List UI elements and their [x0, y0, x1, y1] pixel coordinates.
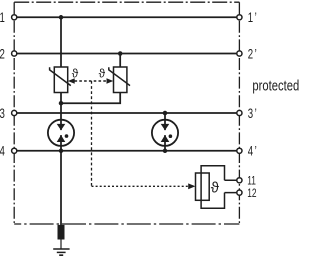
GDT F1 gas dot: [65, 134, 69, 138]
svg-text:ϑ: ϑ: [72, 67, 79, 81]
thermal disconnector actuator box: [196, 173, 210, 200]
frame right: [238, 2, 240, 224]
GDT F1 top electrode arrow: [57, 124, 66, 130]
frame left: [13, 2, 15, 224]
varistor R2 diagonal with tick: [109, 67, 130, 85]
svg-text:4: 4: [0, 144, 5, 159]
wire varistor R2 top (line2 down to box): [119, 54, 121, 68]
svg-text:ϑ: ϑ: [211, 180, 220, 197]
arrowhead left toward R1: [68, 78, 75, 84]
frame bottom: [14, 223, 239, 225]
junction dot line3/F2: [163, 111, 168, 116]
arrowhead right toward R2: [107, 78, 114, 84]
varistor R1 box: [54, 67, 67, 93]
wire main vertical lower (GDT F1 bottom electrode to ground block): [60, 135, 62, 239]
GDT F2 gas dot: [169, 134, 173, 138]
varistor R1 diagonal with tick: [50, 67, 71, 85]
wire line 3: [14, 112, 239, 114]
dotted signal line horizontal: [92, 185, 189, 187]
junction dot line1/main vertical: [59, 15, 64, 20]
wire line 1: [14, 16, 239, 18]
svg-text:protected: protected: [252, 77, 299, 94]
arrowhead into disconnector: [188, 183, 195, 189]
terminal 2': [237, 51, 242, 56]
varistor R2 box: [114, 67, 127, 93]
ground block feedthrough: [58, 225, 65, 240]
svg-text:1’: 1’: [248, 11, 259, 26]
svg-text:2’: 2’: [248, 47, 259, 62]
gas discharge tube F2 circle: [152, 120, 178, 146]
svg-text:4’: 4’: [248, 144, 259, 159]
wire line 4: [14, 150, 239, 152]
wire varistor R2 bottom to node A: [61, 93, 120, 104]
wire main vertical upper (line1 to GDT F1 top electrode): [60, 17, 62, 130]
GDT F1 bottom electrode arrow: [57, 135, 66, 142]
gas discharge tube F1 circle: [48, 120, 74, 146]
frame top (dash-dot boundary): [14, 1, 239, 3]
terminal 11: [237, 178, 242, 183]
wire GDT F2 (line3 to line4): [164, 113, 166, 151]
remote signalling contact outer box: [201, 166, 237, 209]
svg-text:2: 2: [0, 47, 5, 62]
svg-text:3: 3: [0, 106, 5, 121]
terminal 1': [237, 15, 242, 20]
terminal 1: [12, 15, 17, 20]
junction node A (varistor bottoms): [59, 101, 64, 106]
svg-text:11: 11: [247, 175, 256, 188]
ground stub wire: [60, 240, 62, 249]
GDT F2 bottom electrode arrow: [161, 135, 170, 142]
wire line 2: [14, 53, 239, 55]
terminal 12: [237, 190, 242, 195]
GDT F2 top electrode arrow: [161, 124, 170, 130]
terminal 3: [12, 110, 17, 115]
junction dot line4/main vertical: [59, 149, 64, 154]
terminal 2: [12, 51, 17, 56]
terminal 4': [237, 148, 242, 153]
terminal 4: [12, 148, 17, 153]
junction dot line4/F2: [163, 149, 168, 154]
svg-text:ϑ: ϑ: [99, 67, 106, 81]
terminal 3': [237, 110, 242, 115]
dashed signal line vertical: [91, 81, 93, 186]
junction dot line2/R2: [118, 51, 123, 56]
svg-text:12: 12: [247, 188, 257, 201]
svg-text:1: 1: [0, 11, 5, 26]
ground symbol: [53, 249, 69, 255]
svg-text:3’: 3’: [248, 106, 259, 121]
thermal monitoring dashed double arrow: [75, 80, 107, 82]
